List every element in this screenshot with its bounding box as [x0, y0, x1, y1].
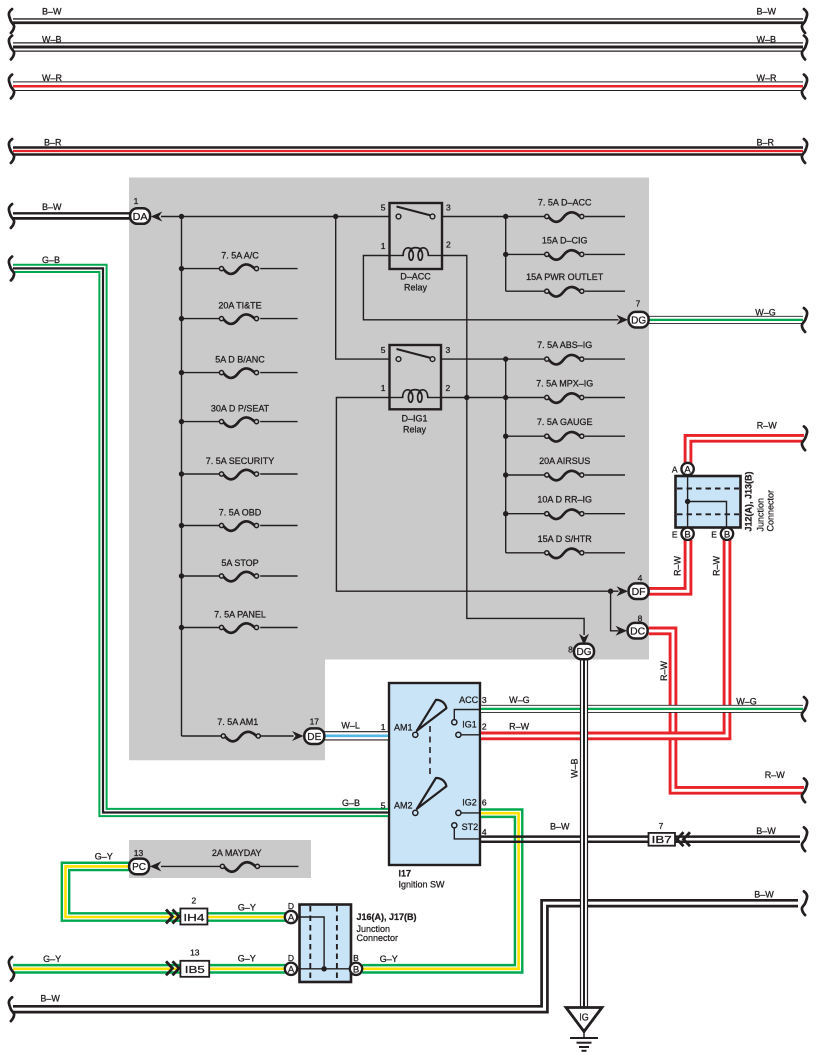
edge squiggles left — [9, 9, 14, 33]
wire: DF branch down to DC — [611, 591, 619, 631]
wire: D-ACC pin1 to DG7 — [363, 256, 618, 320]
svg-text:E: E — [711, 529, 717, 539]
wire: S/HTR row — [506, 552, 545, 554]
svg-text:4: 4 — [482, 827, 487, 837]
svg-text:J12(A), J13(B): J12(A), J13(B) — [744, 471, 754, 531]
fuse 7.5A AM1 — [221, 732, 260, 742]
MAYDAY gray box — [129, 840, 311, 878]
svg-text:2: 2 — [446, 383, 451, 393]
svg-text:Relay: Relay — [403, 425, 427, 435]
svg-text:6: 6 — [482, 798, 487, 808]
svg-text:B–R: B–R — [757, 138, 775, 148]
svg-text:B: B — [724, 529, 730, 540]
wire: right lower fuse bus — [505, 359, 507, 553]
svg-text:W–B: W–B — [42, 35, 62, 45]
svg-text:2A MAYDAY: 2A MAYDAY — [212, 848, 262, 858]
connector DC pin8 — [616, 614, 648, 639]
svg-text:13: 13 — [190, 948, 200, 958]
wire G-Y from PC to IH4 — [66, 866, 182, 917]
svg-text:Connector: Connector — [766, 490, 776, 532]
svg-text:1: 1 — [381, 241, 386, 251]
svg-text:5: 5 — [381, 345, 386, 355]
svg-text:W–R: W–R — [42, 73, 63, 83]
IG2 terminal — [461, 812, 480, 814]
svg-text:R–W: R–W — [757, 421, 778, 431]
svg-text:7. 5A A/C: 7. 5A A/C — [221, 251, 259, 261]
svg-text:DG: DG — [631, 315, 646, 327]
svg-text:W–L: W–L — [341, 721, 360, 731]
junction J16 pin A circle top — [285, 911, 297, 923]
wire G-Y from IG2 to junction B pin — [362, 813, 518, 969]
svg-text:W–G: W–G — [755, 308, 776, 318]
svg-text:ACC: ACC — [459, 695, 479, 705]
node: DF/DC branch junction — [608, 589, 613, 594]
connector IB5 pin13 — [166, 948, 209, 977]
svg-text:1: 1 — [134, 196, 139, 206]
wire: AIRSUS row — [506, 474, 545, 476]
fuse 7.5A ABS-IG — [545, 355, 584, 365]
svg-text:G–B: G–B — [42, 255, 60, 265]
svg-text:DF: DF — [632, 586, 646, 598]
svg-text:7. 5A PANEL: 7. 5A PANEL — [214, 610, 266, 620]
svg-text:17: 17 — [310, 717, 320, 727]
wire: D-ACC relay pin3 to D-ACC fuse — [442, 216, 545, 218]
svg-text:DE: DE — [307, 731, 321, 743]
svg-text:IB5: IB5 — [185, 964, 205, 976]
wire W-R top — [13, 81, 803, 91]
wire: left fuse rows out — [260, 268, 297, 270]
svg-text:30A D P/SEAT: 30A D P/SEAT — [211, 404, 270, 414]
connector PC pin13 — [129, 848, 161, 874]
fuse 7.5A OBD — [219, 521, 258, 531]
wire B-W top — [13, 18, 803, 25]
wire W-G from DG7 to right edge — [649, 316, 803, 324]
svg-text:B–W: B–W — [754, 890, 774, 900]
svg-text:8: 8 — [568, 645, 573, 655]
svg-text:B–W: B–W — [550, 822, 570, 832]
node: RR-IG junction — [503, 511, 508, 516]
svg-text:2: 2 — [446, 240, 451, 250]
fuse 15A D-CIG — [545, 250, 584, 260]
svg-text:5: 5 — [381, 203, 386, 213]
junction J12 pin A circle — [681, 463, 693, 475]
junction J12 pin B circle right — [721, 528, 733, 540]
connector DG pin8 — [568, 634, 594, 660]
IG1 terminal — [461, 734, 480, 736]
wire W-B vertical from DG8 to IG ground — [580, 651, 588, 1007]
svg-text:AM1: AM1 — [394, 723, 413, 733]
switch blade AM2 — [417, 778, 447, 809]
fuse 7.5A D-ACC — [545, 212, 584, 222]
junction J16 pin B circle — [350, 963, 362, 975]
svg-text:7: 7 — [636, 299, 641, 309]
wire: left vertical bus — [181, 217, 183, 737]
fuse 15A PWR OUTLET — [545, 287, 584, 297]
svg-text:15A D–CIG: 15A D–CIG — [542, 235, 588, 245]
svg-text:7. 5A D–ACC: 7. 5A D–ACC — [538, 198, 592, 208]
fuse 7.5A SECURITY — [219, 470, 258, 480]
svg-text:ST2: ST2 — [462, 822, 479, 832]
svg-text:7. 5A AM1: 7. 5A AM1 — [217, 717, 258, 727]
wire: left fuse rows in — [182, 268, 220, 270]
wire: PWR OUTLET row — [506, 290, 545, 292]
wire W-L from DE to AM1 — [324, 731, 388, 740]
fuse 5A STOP — [219, 572, 258, 582]
svg-text:D: D — [288, 953, 294, 963]
svg-text:W–B: W–B — [757, 35, 777, 45]
svg-text:DG: DG — [577, 646, 592, 658]
wire B-R top — [13, 146, 803, 155]
node: GAUGE junction — [503, 434, 508, 439]
node: D-IG1 branch junction — [333, 214, 338, 219]
wire: right fuse outputs — [585, 216, 625, 218]
svg-text:R–W: R–W — [765, 770, 786, 780]
svg-text:DA: DA — [133, 211, 148, 223]
svg-text:5A D B/ANC: 5A D B/ANC — [215, 355, 265, 365]
wire: D-IG1 pin1 to DF — [336, 398, 618, 592]
edge squiggles right — [802, 9, 807, 33]
fuse 7.5A PANEL — [219, 623, 258, 633]
dashed link — [429, 726, 431, 777]
node: MPX-IG junction — [503, 395, 508, 400]
svg-text:E: E — [672, 529, 678, 539]
fuse 2A MAYDAY — [220, 862, 259, 872]
svg-text:10A D RR–IG: 10A D RR–IG — [537, 495, 592, 505]
svg-text:2: 2 — [192, 896, 197, 906]
fuse 15A D S/HTR — [545, 549, 584, 559]
svg-text:7: 7 — [659, 821, 664, 831]
svg-text:IG1: IG1 — [462, 720, 477, 730]
wire W-B top — [13, 42, 803, 51]
svg-text:Connector: Connector — [357, 933, 399, 943]
svg-text:20A TI&TE: 20A TI&TE — [218, 301, 261, 311]
node: right bus top junction — [503, 214, 508, 219]
fuse 20A AIRSUS — [545, 471, 584, 481]
svg-text:W–R: W–R — [757, 73, 778, 83]
wire: D-IG1 coil row inside box — [389, 397, 404, 399]
svg-text:IH4: IH4 — [183, 912, 204, 924]
fuse 7.5A A/C — [219, 264, 258, 274]
connector DF pin4 — [617, 573, 649, 599]
node: ABS-IG junction — [503, 356, 508, 361]
svg-text:Ignition SW: Ignition SW — [399, 880, 446, 890]
wire: MPX-IG row — [506, 397, 545, 399]
relay D-ACC — [390, 203, 443, 269]
junction dots — [179, 214, 614, 630]
svg-text:3: 3 — [482, 695, 487, 705]
svg-text:G–Y: G–Y — [238, 903, 256, 913]
svg-text:PC: PC — [132, 861, 146, 873]
svg-text:Relay: Relay — [404, 283, 428, 293]
svg-text:G–Y: G–Y — [238, 954, 256, 964]
svg-text:IG: IG — [579, 1012, 589, 1024]
junction J16 pin A circle bottom — [285, 963, 297, 975]
svg-text:Junction: Junction — [756, 498, 766, 532]
AM2 contact — [413, 810, 418, 815]
svg-text:D–ACC: D–ACC — [400, 272, 431, 282]
svg-text:B–R: B–R — [44, 138, 62, 148]
ground IG — [566, 1008, 602, 1051]
svg-text:7. 5A OBD: 7. 5A OBD — [219, 508, 262, 518]
svg-text:B: B — [684, 529, 690, 540]
svg-text:G–Y: G–Y — [380, 954, 398, 964]
wire R-W from DF to junction B pin — [649, 540, 688, 591]
relay / fuse block gray panel — [129, 178, 649, 761]
connector DG pin7 — [617, 299, 649, 328]
svg-text:IB7: IB7 — [652, 835, 673, 846]
connector IH4 pin2 — [166, 896, 207, 925]
wire: D-IG1 pin3 / ABS-IG row — [441, 358, 545, 360]
svg-text:G–Y: G–Y — [43, 954, 61, 964]
wire R-W from junction A pin to right edge — [688, 438, 804, 474]
wire: RR-IG row — [506, 513, 545, 515]
svg-text:W–G: W–G — [509, 695, 530, 705]
svg-text:7. 5A GAUGE: 7. 5A GAUGE — [537, 417, 593, 427]
wire: AM1 fuse to DE arrow — [260, 735, 293, 737]
svg-text:B–W: B–W — [40, 994, 60, 1004]
wire R-W from DC down to right edge — [649, 631, 804, 790]
connector DA — [130, 196, 162, 224]
svg-text:7. 5A ABS–IG: 7. 5A ABS–IG — [537, 340, 592, 350]
connector DE pin17 — [292, 717, 324, 745]
fuse 7.5A GAUGE — [545, 432, 584, 442]
wire B-W from IB7 to right edge — [675, 837, 800, 842]
svg-text:3: 3 — [446, 203, 451, 213]
fuse 5A D B/ANC — [219, 368, 258, 378]
svg-text:4: 4 — [638, 573, 643, 583]
svg-text:R–W: R–W — [509, 722, 530, 732]
fuse 10A D RR-IG — [545, 510, 584, 520]
svg-text:DC: DC — [630, 626, 645, 638]
wire G-Y from left edge to IB5 — [13, 964, 181, 974]
ACC terminal — [454, 710, 480, 720]
fuse 7.5A MPX-IG — [545, 393, 584, 403]
wire B-W from left edge to DA — [13, 212, 131, 220]
svg-text:D: D — [288, 901, 294, 911]
svg-text:I17: I17 — [399, 869, 412, 879]
svg-text:13: 13 — [134, 848, 144, 858]
svg-text:B–W: B–W — [757, 7, 777, 17]
svg-text:7. 5A MPX–IG: 7. 5A MPX–IG — [536, 379, 593, 389]
junction connector J16(A),J17(B) box — [296, 905, 351, 983]
svg-text:G–B: G–B — [342, 798, 360, 808]
svg-text:B–W: B–W — [42, 7, 62, 17]
ignition switch I17 box — [389, 683, 480, 865]
ST2 terminal — [454, 828, 480, 839]
svg-text:IG2: IG2 — [462, 798, 477, 808]
wire B-W from ST2 to IB7 — [481, 837, 649, 842]
wire B-W bottom left to right edge — [13, 900, 798, 1012]
svg-text:A: A — [684, 465, 691, 476]
svg-text:8: 8 — [638, 614, 643, 624]
svg-text:A: A — [672, 465, 678, 475]
wire: D-ACC pin2 down to DG8 — [442, 256, 584, 636]
junction connector J12(A),J13(B) box — [676, 476, 741, 529]
node: AIRSUS junction — [503, 472, 508, 477]
svg-text:G–Y: G–Y — [95, 852, 113, 862]
wire: right upper fuse bus — [505, 217, 507, 292]
svg-text:B–W: B–W — [42, 202, 62, 212]
svg-text:R–W: R–W — [659, 660, 669, 681]
svg-text:W–B: W–B — [570, 758, 580, 778]
svg-text:AM2: AM2 — [394, 801, 413, 811]
node: D-CIG junction — [503, 252, 508, 257]
node: DA top bus junction — [179, 214, 184, 219]
svg-text:W–G: W–G — [736, 697, 757, 707]
wire: branch to D-IG1 pin5 — [336, 217, 389, 360]
wire W-G from ACC to right edge — [481, 705, 803, 713]
svg-text:B–W: B–W — [756, 826, 776, 836]
svg-text:15A PWR OUTLET: 15A PWR OUTLET — [526, 272, 604, 282]
wire G-Y from IH4 to junction A pin — [207, 912, 286, 922]
wire G-B from left edge to AM2 — [13, 268, 388, 812]
svg-text:J16(A), J17(B): J16(A), J17(B) — [357, 912, 417, 922]
relay D-IG1 — [390, 345, 442, 409]
svg-text:R–W: R–W — [712, 555, 722, 576]
fuse 30A D P/SEAT — [219, 417, 258, 427]
svg-text:1: 1 — [381, 383, 386, 393]
svg-text:1: 1 — [381, 722, 386, 732]
svg-text:5A STOP: 5A STOP — [221, 558, 258, 568]
wire R-W from IG1 to junction B pin — [481, 540, 727, 736]
wire: D-CIG row — [506, 253, 545, 255]
wire: D-ACC coil row inside box — [389, 255, 404, 257]
svg-text:15A D S/HTR: 15A D S/HTR — [538, 534, 593, 544]
switch blade AM1 — [417, 700, 447, 731]
node: D-ACC pin2 / D-IG1 pin2 junction — [464, 395, 469, 400]
wire G-Y from IB5 to junction A pin — [209, 964, 286, 974]
svg-text:B: B — [353, 964, 359, 975]
svg-text:A: A — [288, 913, 295, 924]
svg-text:2: 2 — [482, 722, 487, 732]
wire: DA to D-ACC relay pin5 (top bus) — [161, 216, 389, 218]
svg-text:20A AIRSUS: 20A AIRSUS — [539, 456, 590, 466]
svg-text:R–W: R–W — [673, 555, 683, 576]
svg-text:7. 5A SECURITY: 7. 5A SECURITY — [206, 456, 275, 466]
svg-text:D–IG1: D–IG1 — [401, 414, 427, 424]
svg-text:3: 3 — [446, 345, 451, 355]
connector IB7 pin7 — [649, 821, 691, 846]
svg-text:A: A — [288, 964, 295, 975]
junction J12 pin B circle left — [681, 528, 693, 540]
svg-text:B: B — [353, 953, 359, 963]
svg-text:5: 5 — [381, 801, 386, 811]
wire: D-IG1 pin2 to bus — [441, 397, 506, 399]
wire: GAUGE row — [506, 435, 545, 437]
wire: MAYDAY fuse wires — [161, 865, 221, 867]
fuse 20A TI&TE — [219, 314, 258, 324]
AM1 contact — [413, 732, 418, 737]
node: left bus fuse junctions — [179, 266, 184, 271]
